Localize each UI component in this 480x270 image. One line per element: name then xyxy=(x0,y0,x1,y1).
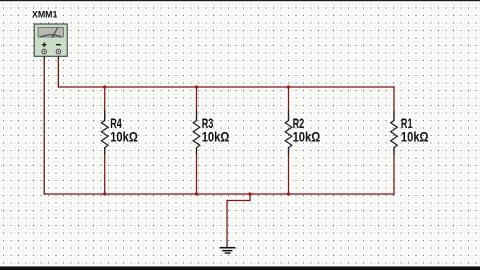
label R1 xyxy=(401,115,429,145)
multimeter XMM1 xyxy=(34,24,67,60)
wire bottom bus xyxy=(44,193,394,195)
svg-text:10kΩ: 10kΩ xyxy=(202,129,230,145)
bottom border bar xyxy=(0,265,480,268)
plus sign xyxy=(42,44,47,46)
wire ground tap xyxy=(227,194,250,242)
wire R1 top lead xyxy=(393,87,395,121)
wire top bus xyxy=(58,86,394,88)
resistor R2 xyxy=(285,111,292,155)
svg-text:10kΩ: 10kΩ xyxy=(110,129,138,145)
node junction dots xyxy=(103,85,290,195)
node R2 bottom junction xyxy=(287,192,290,195)
node R3 bottom junction xyxy=(195,192,198,195)
node R3 top junction xyxy=(195,85,198,88)
wire R2 top lead xyxy=(288,87,290,121)
label R3 xyxy=(202,115,230,145)
node R4 bottom junction xyxy=(103,192,106,195)
display xyxy=(38,27,63,37)
wire R3 bottom lead xyxy=(196,148,198,194)
terminal + xyxy=(42,49,47,54)
label R4 xyxy=(110,115,138,145)
node R2 top junction xyxy=(287,85,290,88)
ground GND xyxy=(220,241,236,254)
wire R1 bottom lead xyxy=(393,148,395,194)
node ground junction xyxy=(248,192,251,195)
wire R4 top lead xyxy=(104,87,106,121)
top border line xyxy=(0,0,480,1)
resistor R4 xyxy=(101,111,108,155)
terminal stubs xyxy=(43,52,45,61)
minus sign xyxy=(56,44,61,46)
terminal - xyxy=(56,49,61,54)
meter needle xyxy=(52,28,58,38)
wire R4 bottom lead xyxy=(104,148,106,194)
wire multimeter + lead (left vertical) xyxy=(43,56,45,194)
svg-text:XMM1: XMM1 xyxy=(32,9,58,20)
wire R2 bottom lead xyxy=(288,148,290,194)
wire R3 top lead xyxy=(196,87,198,121)
resistor R1 xyxy=(391,111,398,155)
node R4 top junction xyxy=(103,85,106,88)
body xyxy=(34,24,67,56)
meter scale arc xyxy=(40,35,61,37)
svg-text:10kΩ: 10kΩ xyxy=(401,129,429,145)
resistor R3 xyxy=(193,111,200,155)
svg-text:10kΩ: 10kΩ xyxy=(293,129,321,145)
label R2 xyxy=(293,115,321,145)
wire multimeter - lead (short vertical) xyxy=(57,56,59,87)
